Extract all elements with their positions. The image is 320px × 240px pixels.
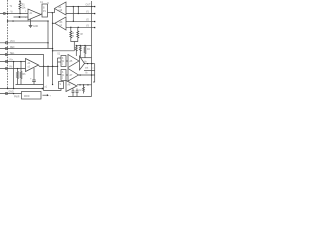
terminal line y61.5: [0, 61, 26, 63]
svg-text:V1: V1: [86, 11, 90, 13]
wire vertical x43.5 from SEL corner to row3 box: [44, 66, 62, 91]
op-amp U2 top-right (left-pointing): [55, 2, 67, 15]
node dot U3 out / x52.5 bus: [52, 23, 53, 24]
tiny text labels (values / designators): [9, 2, 95, 99]
svg-text:W: W: [62, 75, 65, 77]
wire vertical x94.7 right bus: [93, 64, 95, 82]
node dot x48/y21: [47, 20, 48, 21]
svg-text:+: +: [50, 96, 52, 98]
svg-text:P1: P1: [43, 11, 47, 13]
wire U4 out: [39, 65, 58, 66]
svg-text:GND: GND: [33, 26, 38, 28]
node dot rail/R4: [84, 45, 85, 46]
svg-text:C2: C2: [79, 90, 83, 92]
box B4 row3: [59, 82, 64, 89]
node dot y75/x80: [80, 74, 81, 75]
resistor R5: [17, 69, 19, 85]
vertical x13.5: [13, 62, 15, 89]
line y57.7: [80, 57, 91, 59]
svg-text:S: S: [62, 58, 64, 60]
wire x57.5 split to boxes: [57, 58, 59, 75]
node dot y13.5/x7.5: [7, 13, 8, 14]
resistor R1 vertical top-left: [19, 3, 21, 14]
node dot y63.6/x87.5: [87, 63, 88, 64]
svg-text:IN-: IN-: [10, 67, 13, 69]
svg-text:out: out: [85, 67, 89, 70]
svg-text:fb: fb: [86, 73, 89, 75]
bus x52.5: [52, 13, 54, 85]
node dot: [91, 6, 92, 7]
bottom line y88.5 with arrow: [0, 88, 42, 90]
terminal line y49: [0, 48, 53, 50]
svg-text:A4: A4: [28, 62, 32, 65]
node dot: [73, 6, 74, 7]
box B3 row2: [61, 70, 66, 81]
svg-text:S: S: [62, 72, 64, 74]
svg-text:A1: A1: [30, 12, 34, 15]
op-amp U1 top-left: [28, 9, 41, 20]
node dot: [73, 21, 74, 22]
wire U2 input top y6.5: [66, 6, 95, 8]
node dot y61.5/R6: [20, 61, 21, 62]
node dot x52.5: [52, 12, 53, 13]
node dot: [7, 20, 8, 21]
wire U3 out to bus: [53, 22, 55, 24]
wire input line y17: [14, 16, 29, 18]
wire box out: [48, 9, 55, 13]
svg-text:A5: A5: [70, 60, 74, 63]
vertical x48 bottom: [47, 66, 49, 76]
wire U3 in top y21.5: [66, 20, 95, 22]
node dot y93.5/x13.5: [13, 93, 14, 94]
node dot rail/R7: [76, 45, 77, 46]
svg-text:OUT: OUT: [86, 4, 91, 6]
resistor R3 mid: [77, 27, 79, 40]
node dot y68.5/R5: [17, 68, 18, 69]
node dot y66/x43.5: [43, 66, 44, 67]
svg-text:B: B: [43, 8, 45, 10]
svg-text:MOD: MOD: [24, 96, 30, 98]
node dot: [78, 27, 79, 28]
svg-text:1: 1: [62, 64, 64, 66]
svg-text:W: W: [62, 61, 65, 63]
bottom wire y96.5: [68, 96, 92, 98]
svg-text:PWR: PWR: [14, 97, 20, 99]
svg-text:2: 2: [25, 11, 27, 13]
wire U8 out y84.8: [77, 84, 92, 86]
node dot y66/x52.5: [52, 66, 53, 67]
svg-text:R1: R1: [22, 5, 26, 7]
terminal line y55 + corner down: [0, 55, 44, 66]
node dot y88.5/x13.5: [13, 88, 14, 89]
node dot y88.5/x7.5: [7, 88, 8, 89]
svg-text:T1: T1: [10, 6, 13, 8]
arrow on y17: [18, 16, 20, 18]
bottom join line y84.5: [16, 84, 44, 86]
pin end dots right edge: [94, 6, 95, 28]
svg-text:A3: A3: [60, 21, 64, 24]
box B2 row1: [61, 56, 66, 67]
node dot y84.8/x80: [79, 84, 80, 85]
svg-text:A7: A7: [70, 74, 74, 77]
resistor R8 small: [79, 46, 81, 58]
svg-text:R: R: [72, 33, 74, 35]
resistor R7 small: [75, 46, 77, 57]
terminal line y43: [0, 42, 48, 44]
resistor R2 mid: [70, 27, 72, 40]
node dot x78.3/y13.5: [78, 13, 79, 14]
svg-text:A2: A2: [59, 6, 63, 9]
op-amp U7 row2: [68, 69, 79, 82]
svg-text:x1: x1: [60, 25, 63, 27]
capacitor C1: [33, 68, 35, 80]
node dot y50.8/x52.5: [52, 50, 53, 51]
svg-text:+: +: [30, 77, 32, 80]
supply arrow top: [19, 1, 21, 3]
op-amp U5 row1: [68, 55, 79, 68]
op-amp U3 left-pointing: [55, 17, 66, 30]
rail y45.5: [76, 45, 91, 47]
wire x73 down: [72, 7, 74, 22]
node dot y61.5/x13.5: [13, 61, 14, 62]
svg-text:R: R: [72, 36, 74, 38]
op-amp U6 second stage: [80, 56, 85, 70]
wire U2 input bottom y13.5: [66, 13, 95, 15]
wire U7 out y75: [79, 74, 95, 76]
svg-text:A8: A8: [68, 84, 72, 87]
svg-text:o: o: [92, 67, 94, 69]
node dot y66/x48: [47, 66, 48, 67]
node dot y66/x57.5: [57, 66, 58, 67]
wire bias line y21: [8, 20, 49, 22]
wire joining resistor bottoms: [71, 40, 78, 42]
svg-text:Rf: Rf: [81, 34, 84, 36]
terminal circle T1 on y13.5: [3, 12, 5, 14]
svg-text:x2: x2: [28, 67, 31, 69]
node dot resistor tap: [19, 13, 20, 14]
resistor R4 (x85): [84, 46, 86, 58]
svg-text:x10: x10: [59, 10, 63, 12]
node dot y75/x91.5: [91, 74, 92, 75]
svg-text:R6: R6: [23, 74, 27, 76]
arrow marker bottom: [43, 94, 48, 96]
node dot y84.8/x87.8: [87, 84, 88, 85]
small resistor R9 bottom right: [83, 85, 85, 94]
node dot rail/R8: [80, 45, 81, 46]
op-amp U4 bottom-left: [26, 59, 39, 72]
cap C3 below U8: [76, 89, 79, 97]
svg-text:R4: R4: [87, 49, 91, 51]
wire drop to y51: [53, 42, 74, 51]
cap C2 below U8: [72, 89, 75, 97]
wire box-to-amp stubs: [66, 61, 68, 75]
svg-text:GND: GND: [9, 92, 14, 94]
node dot y63.6/x91.5: [91, 63, 92, 64]
wire U1 out to box: [41, 13, 42, 16]
svg-text:S1: S1: [57, 54, 61, 56]
node dot x52.5/y48.5: [52, 48, 53, 49]
node dot R2 tap: [70, 27, 71, 28]
svg-text:10k: 10k: [22, 8, 27, 10]
wire x78 down and y13.5 right: [77, 7, 79, 14]
op-amp U8 row3: [66, 81, 77, 92]
vertical x48 top segment: [47, 21, 49, 49]
terminal line y68.5: [0, 68, 26, 70]
node dot: [12, 20, 13, 21]
svg-text:S: S: [60, 84, 62, 86]
box B1: [42, 4, 48, 17]
arrowhead y88.5 end: [42, 87, 44, 89]
box B5 bottom-left: [22, 92, 42, 100]
resistor R6: [20, 62, 22, 85]
wire input line y13.5: [0, 13, 28, 15]
svg-text:5: 5: [48, 3, 50, 5]
node dot x48/y42.8: [47, 42, 48, 43]
wire U3 in bottom y27.5: [66, 26, 95, 28]
vertical x91.5: [91, 1, 93, 97]
svg-text:o1: o1: [45, 87, 48, 89]
svg-text:Vi: Vi: [11, 11, 13, 13]
svg-text:SEL: SEL: [10, 53, 15, 55]
bottom terminal line y93.5: [0, 93, 22, 95]
dashed border left: [7, 0, 9, 89]
svg-text:REF: REF: [10, 47, 15, 49]
wire y70.5: [84, 70, 95, 72]
node dot y84.8/R9: [83, 84, 84, 85]
ground below U1: [29, 19, 33, 28]
wire U6 out y64: [85, 63, 95, 65]
svg-text:2: 2: [62, 78, 64, 80]
svg-text:VCC: VCC: [10, 41, 15, 43]
